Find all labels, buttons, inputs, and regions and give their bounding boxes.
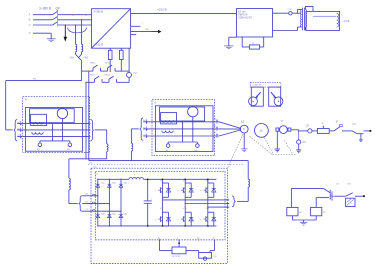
svg-text:=220 В: =220 В [157, 8, 167, 12]
svg-text:VД2: VД2 [101, 213, 105, 215]
svg-text:С: С [29, 23, 31, 27]
svg-text:220В-А2УХЛ: 220В-А2УХЛ [238, 16, 252, 19]
svg-text:VТ1: VТ1 [160, 181, 163, 183]
svg-text:у: у [155, 219, 156, 221]
svg-text:у: у [200, 219, 201, 221]
svg-text:у: у [178, 190, 179, 192]
svg-text:ЗУ СИФУ: ЗУ СИФУ [172, 255, 182, 258]
svg-text:ДС: ДС [260, 129, 264, 132]
svg-text:ИН: ИН [302, 142, 306, 144]
svg-text:VД3: VД3 [112, 183, 116, 185]
svg-text:а): а) [25, 98, 27, 101]
svg-text:фу: фу [158, 236, 161, 239]
svg-text:VТ2: VТ2 [160, 208, 163, 210]
svg-text:КМ22: КМ22 [105, 74, 111, 76]
svg-text:VД5: VД5 [124, 183, 128, 185]
svg-text:у: у [200, 190, 201, 192]
svg-text:М: М [243, 128, 245, 131]
svg-text:VД1: VД1 [101, 183, 105, 185]
svg-text:у: у [177, 237, 178, 239]
svg-text:3~380 В: 3~380 В [39, 7, 51, 11]
svg-text:КМ1: КМ1 [70, 58, 75, 60]
svg-text:А: А [29, 13, 31, 17]
svg-text:КМ: КМ [33, 79, 36, 81]
svg-text:б): б) [154, 101, 156, 104]
svg-text:ПЕРС-М: ПЕРС-М [238, 14, 247, 16]
svg-text:В: В [29, 18, 31, 22]
svg-text:у: у [155, 190, 156, 192]
svg-text:у: у [178, 219, 179, 221]
svg-text:FU: FU [134, 73, 137, 75]
svg-text:КМ12: КМ12 [90, 63, 96, 65]
svg-text:3~100 В: 3~100 В [93, 43, 103, 47]
svg-text:3~380 В: 3~380 В [93, 10, 103, 14]
svg-text:СЛ: СЛ [353, 124, 357, 126]
svg-text:КМ2: КМ2 [84, 58, 89, 60]
svg-text:VД4: VД4 [112, 213, 116, 215]
svg-text:VД6: VД6 [124, 213, 128, 215]
svg-text:4 5б: 4 5б [93, 166, 98, 168]
svg-text:фт: фт [212, 236, 215, 239]
svg-text:2Ш: 2Ш [89, 162, 92, 164]
svg-text:к САУ ЭП: к САУ ЭП [253, 84, 262, 87]
svg-text:~27 В: ~27 В [343, 19, 350, 23]
svg-text:VТ3: VТ3 [183, 181, 186, 183]
svg-text:VТ4: VТ4 [183, 208, 186, 210]
svg-text:КМ21: КМ21 [90, 74, 96, 76]
svg-text:ВД: ВД [241, 122, 244, 124]
svg-text:VТ5: VТ5 [206, 181, 209, 183]
svg-text:БУ тип: БУ тип [238, 11, 246, 13]
svg-text:VТ6: VТ6 [206, 208, 209, 210]
svg-text:КМ11: КМ11 [105, 63, 111, 65]
svg-text:N: N [29, 31, 31, 35]
svg-text:фи: фи [197, 236, 200, 239]
svg-text:QF: QF [56, 7, 60, 11]
